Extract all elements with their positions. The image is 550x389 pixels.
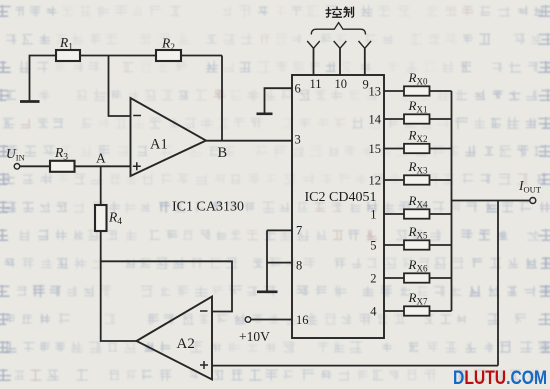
svg-text:8: 8: [296, 258, 302, 272]
svg-text:13: 13: [369, 85, 382, 99]
svg-text:A1: A1: [150, 137, 168, 153]
svg-text:UIN: UIN: [6, 146, 25, 163]
svg-text:A: A: [96, 151, 106, 166]
svg-text:R4: R4: [108, 210, 122, 228]
svg-text:A2: A2: [177, 336, 195, 352]
svg-text:14: 14: [369, 113, 382, 127]
svg-text:12: 12: [369, 174, 382, 188]
svg-text:5: 5: [370, 239, 376, 253]
svg-text:RX3: RX3: [408, 159, 428, 176]
svg-text:RX0: RX0: [408, 70, 428, 87]
svg-text:1: 1: [370, 208, 376, 222]
svg-text:2: 2: [370, 272, 376, 286]
svg-text:R2: R2: [161, 36, 175, 54]
svg-text:IC2 CD4051: IC2 CD4051: [305, 190, 377, 205]
svg-text:RX5: RX5: [408, 224, 428, 241]
svg-text:10: 10: [335, 77, 348, 91]
svg-text:11: 11: [310, 77, 322, 91]
svg-text:16: 16: [296, 313, 309, 327]
svg-text:RX2: RX2: [408, 128, 428, 145]
svg-text:4: 4: [370, 305, 377, 319]
svg-text:B: B: [218, 145, 228, 161]
svg-text:DLUTU.COM: DLUTU.COM: [453, 367, 547, 389]
svg-text:6: 6: [295, 82, 301, 96]
svg-text:IC1 CA3130: IC1 CA3130: [172, 200, 244, 215]
svg-text:RX1: RX1: [408, 98, 428, 115]
svg-text:R1: R1: [59, 35, 73, 53]
svg-text:+10V: +10V: [239, 329, 270, 344]
svg-text:15: 15: [369, 142, 382, 156]
svg-text:7: 7: [296, 223, 302, 237]
svg-text:3: 3: [295, 133, 301, 147]
svg-text:RX4: RX4: [408, 193, 428, 210]
